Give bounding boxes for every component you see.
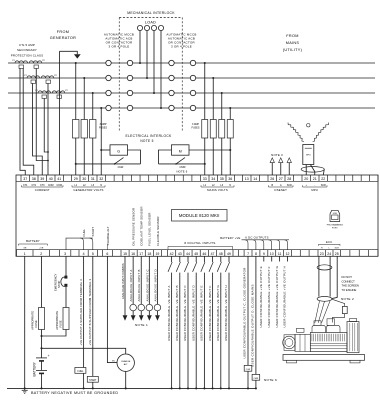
sensor circle D [154, 304, 161, 311]
wire load drop 4 to row 4 [160, 31, 162, 108]
wire coil G to CGR contact leg [128, 150, 141, 164]
svg-text:ANALOGUE INPUT B: ANALOGUE INPUT B [137, 269, 141, 301]
fuse F7 mains sensing [227, 120, 233, 139]
wire ECU screen (terminal 25) [332, 256, 337, 298]
ECU cable screen ellipse lower [317, 297, 332, 302]
svg-text:ANALOGUE INPUT C: ANALOGUE INPUT C [145, 269, 149, 301]
svg-text:43: 43 [178, 252, 182, 256]
wire mains L3 sensing to terminal 35 [221, 93, 223, 175]
wire CT2 S2 to terminal 40 [47, 83, 49, 175]
bracket GENERATOR VOLTS [72, 185, 105, 187]
svg-text:8 DIGITAL INPUTS: 8 DIGITAL INPUTS [184, 241, 215, 245]
svg-text:SCR: SCR [335, 248, 340, 250]
DSENET off-page arrows B A SCR [270, 158, 274, 163]
svg-text:PROGRAMMING: PROGRAMMING [327, 224, 344, 227]
wire analogue input d [156, 256, 158, 315]
svg-text:22: 22 [321, 177, 325, 181]
svg-text:FUSE: FUSE [34, 320, 38, 327]
svg-text:44: 44 [186, 252, 190, 256]
svg-text:NOTE 6: NOTE 6 [264, 378, 277, 382]
wire CT3 S1 joining terminal 40 wire [44, 98, 48, 152]
wire CGR contact line to generator L1 [76, 163, 141, 165]
svg-text:USER CONFIGURABLE -VE INPUT D: USER CONFIGURABLE -VE INPUT D [191, 285, 195, 341]
svg-text:START: START [91, 227, 95, 237]
wire and switch digital input C (terminal 44) [187, 256, 189, 262]
wire and switch digital input A (terminal 42) [171, 256, 173, 262]
top terminal strip cells [29, 175, 31, 181]
svg-text:6: 6 [106, 252, 108, 256]
svg-text:+VE: +VE [39, 247, 44, 249]
svg-text:11: 11 [278, 252, 282, 256]
internal output relay feed bus [242, 239, 290, 241]
svg-text:G: G [117, 149, 120, 153]
fuse F9 emergency stop supply (APPROPRIATE FUSE) [63, 308, 69, 330]
svg-text:LOAD: LOAD [145, 20, 156, 24]
svg-text:FUEL: FUEL [77, 371, 84, 373]
svg-text:DO NOT: DO NOT [342, 275, 353, 279]
mechanical interlock dashed linkage [119, 17, 182, 19]
svg-text:FLEXIBLE SENSOR: FLEXIBLE SENSOR [156, 216, 160, 246]
wire CT1 second secondary joining common [36, 68, 48, 160]
svg-text:39: 39 [40, 177, 44, 181]
bracket MPU [303, 185, 328, 187]
svg-text:USER CONFIGURABLE -VE INPUT H: USER CONFIGURABLE -VE INPUT H [224, 285, 228, 341]
wire battery positive to charge alternator B+ [42, 348, 126, 354]
svg-text:ELECTRICAL INTERLOCK: ELECTRICAL INTERLOCK [126, 134, 172, 138]
contactor coil M [172, 145, 190, 155]
CT3 secondary terminal boxes [42, 95, 47, 98]
wire load drop 2 to row 2 [146, 31, 148, 78]
svg-text:SCR: SCR [287, 184, 292, 187]
svg-text:SCR: SCR [321, 184, 326, 187]
USB programming port icon [330, 210, 340, 221]
svg-text:-VE: -VE [23, 247, 27, 249]
svg-text:TO ENGINE: TO ENGINE [342, 288, 357, 292]
bottom terminal strip cells [16, 250, 18, 257]
fuse F5 mains sensing [210, 120, 216, 139]
svg-text:CT2: CT2 [31, 184, 36, 187]
fuse F8 battery supply (APPROPRIATE FUSE) [39, 308, 45, 330]
svg-text:USB: USB [333, 213, 338, 215]
wire generator bus L1 (row 1) [8, 62, 106, 64]
fuse F3 generator sensing [90, 120, 96, 139]
svg-text:26: 26 [270, 177, 274, 181]
wire output +VE F (terminal 10) [271, 256, 273, 261]
svg-text:34: 34 [211, 177, 215, 181]
svg-text:36: 36 [228, 177, 232, 181]
svg-text:NOTE 6: NOTE 6 [177, 169, 188, 173]
svg-text:ALT: ALT [124, 363, 129, 366]
svg-text:N: N [100, 184, 102, 187]
wire mains L2 sensing to terminal 34 [212, 78, 214, 175]
sensor arrow [131, 315, 136, 321]
wire and switch digital input F (terminal 47) [212, 256, 214, 262]
wire ECU box to engine [333, 314, 345, 323]
wire and switch digital input E (terminal 46) [203, 256, 205, 262]
wire terminal 2 battery positive via fuse [41, 256, 43, 307]
svg-text:MPU: MPU [311, 188, 318, 192]
wire mains L1 sensing to terminal 33 [204, 63, 206, 175]
wire ECU CAN L (terminal 24) [329, 256, 331, 296]
svg-text:BATTERY +VE: BATTERY +VE [220, 236, 240, 240]
svg-text:COOLANT TEMP SENSOR: COOLANT TEMP SENSOR [140, 206, 144, 245]
svg-text:24: 24 [327, 252, 331, 256]
wire relay CMR to bus [255, 380, 257, 388]
svg-text:USER CONFIGURABLE -VE INPUT G: USER CONFIGURABLE -VE INPUT G [216, 285, 220, 341]
svg-text:MPU: MPU [306, 155, 311, 157]
svg-text:CT1: CT1 [23, 184, 28, 187]
battery negative bus [7, 387, 256, 389]
svg-text:BATTERY NEGATIVE MUST BE GROUN: BATTERY NEGATIVE MUST BE GROUNDED [31, 391, 118, 395]
wire and switch digital input B (terminal 43) [179, 256, 181, 262]
svg-text:MAINS: MAINS [286, 41, 300, 45]
svg-text:USER CONFIGURABLE +VE OUTPUT G: USER CONFIGURABLE +VE OUTPUT G [275, 265, 279, 327]
wire CAN pair into engine [315, 301, 320, 323]
svg-text:FUSES: FUSES [99, 127, 107, 130]
relay CMR close mains relay [252, 374, 260, 380]
wire analogue input c [148, 256, 150, 315]
svg-text:GENERATOR VOLTS: GENERATOR VOLTS [73, 188, 103, 192]
charge alternator [117, 354, 134, 371]
svg-text:+VE OUTPUT A SUPPLIED FROM TER: +VE OUTPUT A SUPPLIED FROM TERMINAL 3 [79, 279, 83, 346]
svg-text:N: N [229, 184, 231, 187]
svg-text:16: 16 [131, 252, 135, 256]
svg-text:6 DC OUTPUTS: 6 DC OUTPUTS [245, 235, 269, 239]
svg-text:CONNECT: CONNECT [342, 279, 356, 283]
wire mains bus L1 (row 1) [196, 62, 375, 64]
contact CMR (aux of mains contactor) [176, 158, 185, 164]
svg-text:CHARGE: CHARGE [121, 360, 131, 363]
CT2 current transformer on L2 [27, 76, 54, 78]
sensor circle A [130, 304, 137, 311]
svg-text:27: 27 [279, 177, 283, 181]
svg-text:15: 15 [123, 252, 127, 256]
svg-text:19: 19 [155, 252, 159, 256]
svg-text:3 OR 4 POLE: 3 OR 4 POLE [109, 45, 130, 49]
wire output D close mains (terminal 8) [255, 256, 257, 374]
svg-text:41: 41 [57, 177, 61, 181]
svg-text:+: + [48, 354, 50, 358]
svg-text:NOTE 5: NOTE 5 [140, 139, 153, 143]
svg-text:USER CONFIGURABLE -VE INPUT E: USER CONFIGURABLE -VE INPUT E [200, 285, 204, 341]
generator breaker poles (4) [111, 62, 127, 64]
svg-text:2: 2 [40, 252, 42, 256]
CT1 secondary terminal boxes S1 S2 [19, 65, 24, 68]
svg-text:23: 23 [320, 252, 324, 256]
wire fuse F9 joining battery positive [42, 330, 67, 337]
svg-text:FUEL LEVEL SENSOR: FUEL LEVEL SENSOR [148, 212, 152, 245]
svg-text:37: 37 [23, 177, 27, 181]
contact CGR (aux of generator contactor) [115, 158, 124, 164]
wire generator N to coil G [101, 149, 110, 151]
ground symbol battery negative [24, 388, 26, 390]
sensor circle B [138, 304, 145, 311]
svg-text:COM: COM [56, 184, 62, 187]
svg-text:32: 32 [99, 177, 103, 181]
svg-text:USER CONFIGURABLE OUTPUT C, CL: USER CONFIGURABLE OUTPUT C, CLOSE GENERA… [243, 267, 247, 359]
wire mains N sensing to terminal 36 [229, 108, 231, 175]
sensor arrow [147, 315, 152, 321]
flywheel ring gear segments [288, 123, 304, 142]
svg-text:ANALOGUE INPUT D: ANALOGUE INPUT D [153, 269, 157, 301]
wire MPU + to terminal 20 [305, 165, 307, 176]
svg-text:PROTECTION CLASS: PROTECTION CLASS [11, 54, 43, 58]
fuse F4 mains sensing 3 amp [202, 120, 208, 139]
wire analogue input a [132, 256, 134, 315]
wire generator bus L2 (row 2) [8, 77, 106, 79]
svg-text:20: 20 [304, 177, 308, 181]
wire generator bus N (row 4) [8, 107, 106, 109]
svg-text:GENERATOR: GENERATOR [50, 36, 76, 40]
svg-text:33: 33 [203, 177, 207, 181]
sensor arrow [155, 315, 160, 321]
svg-text:29: 29 [74, 177, 78, 181]
wire mains N to coil M [189, 149, 230, 151]
wire generator L1 sensing to fuse and terminal 29 [75, 63, 77, 175]
svg-text:47: 47 [211, 252, 215, 256]
svg-text:PORT: PORT [332, 227, 338, 229]
load terminal circles [137, 25, 142, 30]
wire and switch digital input H (terminal 49) [228, 256, 230, 262]
wire ECU CAN H (terminal 23) [318, 256, 320, 296]
wire screen drain to ECU box [332, 299, 345, 306]
wire load drop 1 to row 1 [139, 31, 141, 63]
svg-text:DSENET: DSENET [274, 188, 287, 192]
svg-text:THE SCREEN: THE SCREEN [342, 284, 359, 288]
wire terminal 1 battery negative [24, 256, 26, 388]
svg-text:CMR: CMR [180, 165, 186, 169]
svg-text:42: 42 [170, 252, 174, 256]
sensor circle C [146, 304, 153, 311]
CT2 secondary terminal boxes [31, 80, 36, 83]
svg-text:APPROPRIATE: APPROPRIATE [55, 311, 59, 330]
svg-text:FUEL: FUEL [82, 229, 86, 237]
wire CT1 S2 to terminal 38 [23, 68, 34, 175]
wire terminal 5 start output [92, 256, 94, 376]
internal feed from terminal 3 to fuel and start relays [66, 238, 93, 250]
wire MPU - to terminal 21 [310, 165, 314, 176]
start solenoid START [87, 376, 98, 382]
svg-text:31: 31 [91, 177, 95, 181]
svg-text:10: 10 [270, 252, 274, 256]
svg-text:1: 1 [24, 252, 26, 256]
bracket DSENET [269, 185, 294, 187]
magnetic pickup MPU body [303, 145, 314, 165]
svg-text:8: 8 [255, 252, 257, 256]
svg-text:USER CONFIGURABLE -VE INPUT A: USER CONFIGURABLE -VE INPUT A [167, 286, 171, 341]
wire CT2 S1 to terminal 39 [33, 83, 43, 175]
svg-text:45: 45 [194, 252, 198, 256]
wire fuel solenoid to bus [83, 373, 85, 388]
svg-text:MECHANICAL INTERLOCK: MECHANICAL INTERLOCK [127, 11, 175, 15]
svg-text:FUSES: FUSES [192, 127, 200, 130]
sensor arrow [139, 315, 144, 321]
svg-text:18: 18 [147, 252, 151, 256]
svg-text:USER CONFIGURABLE -VE INPUT C: USER CONFIGURABLE -VE INPUT C [183, 285, 187, 341]
svg-text:NOTE 1: NOTE 1 [135, 323, 148, 327]
svg-text:30: 30 [82, 177, 86, 181]
wire generator L3 sensing to terminal 31 [92, 93, 94, 175]
svg-text:13: 13 [245, 177, 249, 181]
wire analogue input b [140, 256, 142, 315]
svg-text:FUSE: FUSE [59, 320, 63, 327]
wire generator N sensing to terminal 32 [100, 108, 102, 175]
wire and switch digital input G (terminal 48) [220, 256, 222, 262]
CT3 current transformer on L3 [38, 91, 65, 93]
sensor arrow [123, 315, 128, 321]
wire output +VE H (terminal 12) [287, 256, 289, 261]
svg-text:4: 4 [83, 252, 85, 256]
svg-text:25: 25 [335, 252, 339, 256]
wire rows between breakers [133, 62, 169, 64]
wire CT1 S1 to terminal 37 [20, 68, 25, 175]
wire emergency stop to fuse F9 [65, 287, 67, 308]
svg-text:35: 35 [220, 177, 224, 181]
wire battery negative to bus [41, 373, 43, 388]
svg-text:USER CONFIGURABLE OUTPUT D, CL: USER CONFIGURABLE OUTPUT D, CLOSE MAINS [251, 284, 255, 367]
svg-text:CTs 5 AMP: CTs 5 AMP [19, 43, 35, 47]
wire output +VE E (terminal 9) [263, 256, 265, 261]
svg-text:NOTE 3: NOTE 3 [271, 153, 283, 157]
svg-text:9: 9 [263, 252, 265, 256]
wire charge alternator to bus [125, 371, 127, 388]
svg-text:3 OR 4 POLE: 3 OR 4 POLE [171, 45, 192, 49]
svg-text:SECONDARY: SECONDARY [17, 48, 37, 52]
svg-text:CGR: CGR [246, 369, 251, 371]
MPU screened cable ellipse [301, 167, 324, 173]
svg-text:BATTERY: BATTERY [32, 361, 36, 376]
svg-text:USER CONFIGURABLE +VE OUTPUT E: USER CONFIGURABLE +VE OUTPUT E [259, 266, 263, 327]
wire CMR contact line to mains L1 [159, 163, 205, 165]
svg-text:START: START [89, 379, 97, 382]
module DSE 8120 outline [16, 175, 378, 256]
svg-text:+VE OUTPUT B SUPPLIED FROM TER: +VE OUTPUT B SUPPLIED FROM TERMINAL 3 [88, 279, 92, 346]
svg-text:CGR: CGR [118, 165, 124, 169]
bracket MAINS VOLTS [201, 185, 234, 187]
svg-text:7: 7 [247, 252, 249, 256]
svg-text:MAINS VOLTS: MAINS VOLTS [207, 188, 228, 192]
svg-text:ECU: ECU [326, 240, 332, 244]
svg-text:CURRENT: CURRENT [35, 188, 50, 192]
bracket CURRENT [22, 185, 64, 187]
wire analogue input common [124, 256, 126, 315]
fuse F6 mains sensing [219, 120, 225, 139]
svg-text:OIL PRESSURE SENSOR: OIL PRESSURE SENSOR [132, 208, 136, 246]
wire and switch digital input D (terminal 45) [195, 256, 197, 262]
wire terminal 6 to charge alternator WL [107, 256, 117, 362]
svg-text:MODULE 8120 MKII: MODULE 8120 MKII [179, 213, 220, 218]
CT1 current transformer on L1 [15, 61, 42, 63]
wire output C close generator (terminal 7) [247, 256, 249, 365]
svg-text:46: 46 [202, 252, 206, 256]
svg-text:38: 38 [32, 177, 36, 181]
svg-text:5: 5 [92, 252, 94, 256]
svg-text:USER CONFIGURABLE -VE INPUT F: USER CONFIGURABLE -VE INPUT F [208, 286, 212, 341]
fuse F2 generator sensing [81, 120, 87, 139]
svg-text:CHARGE ALT: CHARGE ALT [106, 226, 110, 245]
wire MPU screen to terminal 22 [323, 169, 324, 175]
svg-text:M: M [179, 149, 182, 153]
svg-text:ANALOGUE INPUT A: ANALOGUE INPUT A [129, 269, 133, 301]
svg-text:FROM: FROM [286, 34, 298, 38]
ECU box on engine [342, 306, 347, 313]
wire terminal 4 fuel output [83, 256, 85, 367]
svg-text:USER CONFIGURABLE -VE INPUT B: USER CONFIGURABLE -VE INPUT B [175, 285, 179, 341]
wire mains bus L3 (row 3) [196, 92, 375, 94]
wire start solenoid to bus [92, 382, 94, 388]
svg-text:FROM: FROM [57, 30, 69, 34]
svg-text:14: 14 [253, 177, 257, 181]
svg-text:12: 12 [286, 252, 290, 256]
wire fuse F8 to battery [41, 330, 43, 358]
svg-text:CMR: CMR [254, 378, 259, 380]
wire mains bus L2 (row 2) [196, 77, 375, 79]
wire terminal 3 to emergency stop [65, 256, 67, 277]
wire coil M to CMR contact leg [159, 150, 172, 164]
module name label MODULE 8120 MKII [172, 210, 228, 222]
generator set engine drawing [283, 319, 365, 363]
svg-text:NOTE 2: NOTE 2 [341, 297, 354, 301]
svg-text:CT3: CT3 [40, 184, 45, 187]
wire load drop 3 to row 3 [153, 31, 155, 93]
internal relay contacts to terminals 7-12 [245, 240, 248, 250]
fuel solenoid FUEL [75, 368, 86, 374]
svg-text:USER CONFIGURABLE +VE OUTPUT H: USER CONFIGURABLE +VE OUTPUT H [283, 266, 287, 328]
wire mains bus N (row 4) [196, 107, 375, 109]
svg-text:21: 21 [313, 177, 317, 181]
svg-text:49: 49 [227, 252, 231, 256]
contactor coil G [110, 145, 128, 155]
svg-text:(UTILITY): (UTILITY) [283, 48, 303, 52]
svg-text:17: 17 [139, 252, 143, 256]
svg-text:EMERGENCY: EMERGENCY [54, 273, 58, 291]
fuse F1 generator sensing 3 amp [73, 120, 79, 139]
svg-text:BATTERY: BATTERY [26, 239, 40, 243]
svg-text:ANALOGUE INPUT COMMON: ANALOGUE INPUT COMMON [121, 263, 125, 299]
mains breaker poles (4) [174, 62, 190, 64]
svg-text:3: 3 [64, 252, 66, 256]
wire output +VE G (terminal 11) [279, 256, 281, 261]
svg-text:USER CONFIGURABLE +VE OUTPUT F: USER CONFIGURABLE +VE OUTPUT F [267, 266, 271, 327]
ground symbol at generator earth [74, 54, 81, 58]
svg-text:40: 40 [49, 177, 53, 181]
wire CT common / earth link to terminal 41 [59, 51, 61, 175]
flywheel reference circle [307, 124, 310, 127]
wire earth stub at generator [60, 51, 78, 54]
wire relay CGR to bus [247, 371, 249, 388]
svg-text:48: 48 [219, 252, 223, 256]
wire generator L2 sensing to terminal 30 [83, 78, 85, 175]
svg-text:28: 28 [287, 177, 291, 181]
svg-text:COM: COM [48, 184, 54, 187]
wire generator bus L3 (row 3) [8, 92, 106, 94]
ECU cable screen ellipse upper [317, 265, 332, 270]
svg-text:APPROPRIATE: APPROPRIATE [31, 311, 35, 330]
relay CGR close generator relay [244, 365, 252, 371]
